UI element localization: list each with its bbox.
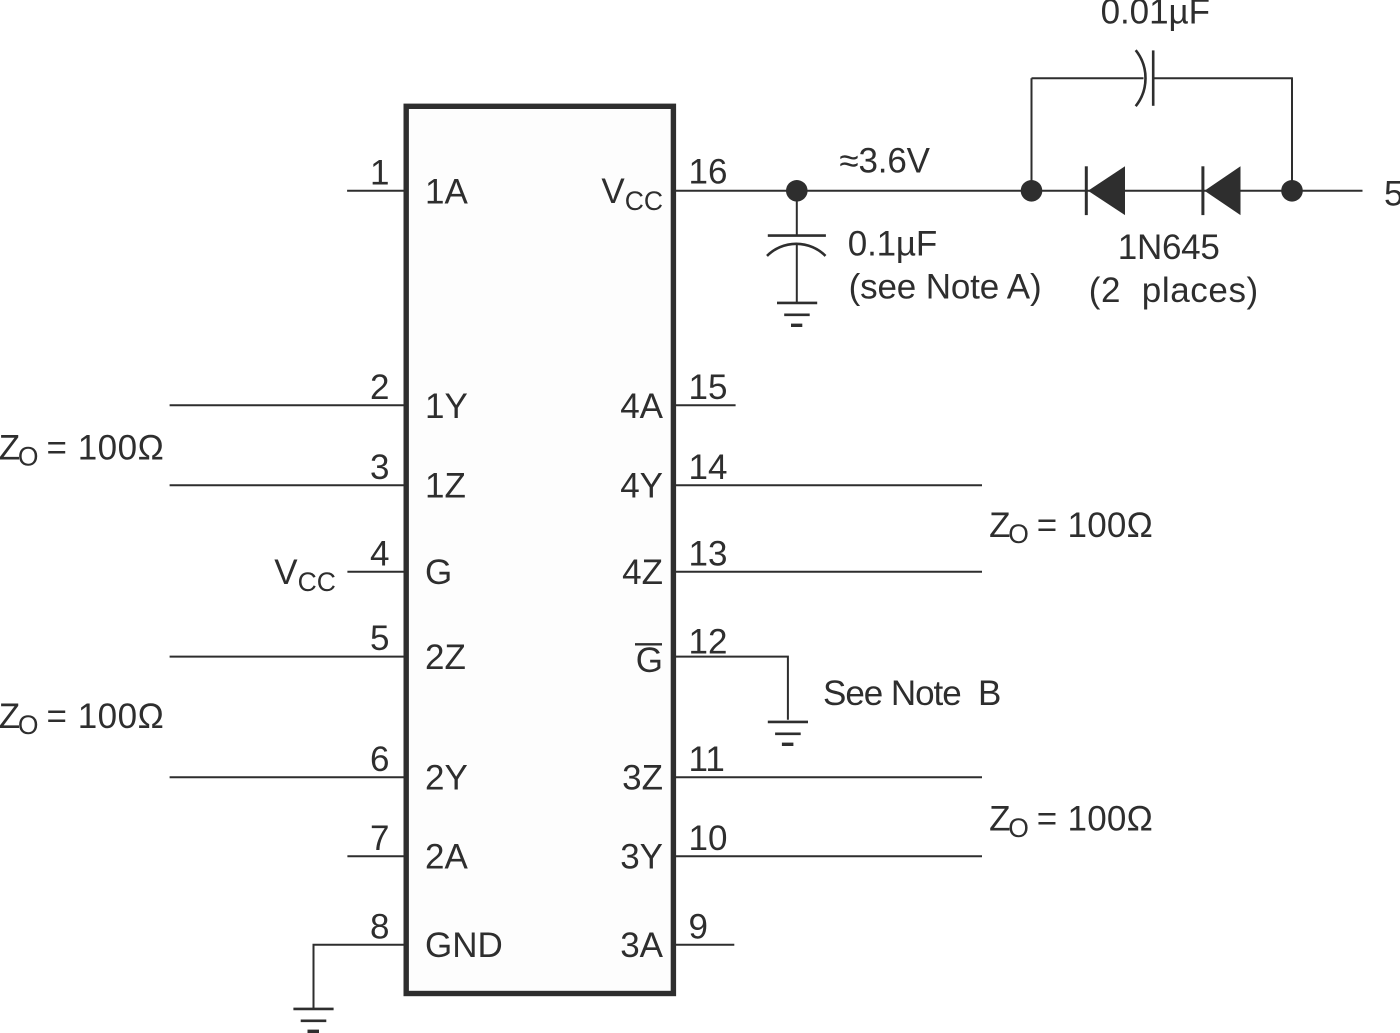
pin 16 wire (VCC net) [674, 190, 1363, 192]
pin 9 wire [674, 944, 734, 946]
svg-text:4Y: 4Y [620, 467, 663, 506]
svg-text:= 100Ω: = 100Ω [1037, 800, 1153, 839]
junction dot A [786, 180, 808, 202]
junction dot B [1021, 180, 1043, 202]
net ZO right 2 label [989, 800, 1153, 843]
svg-text:O: O [18, 710, 39, 740]
svg-text:12: 12 [689, 622, 728, 661]
svg-text:15: 15 [689, 368, 728, 407]
svg-text:G: G [425, 553, 452, 592]
pin 12 label overline [635, 643, 662, 645]
net ZO left 2 label [0, 697, 164, 740]
pin 7 wire [347, 855, 406, 857]
pin 11 wire [674, 776, 982, 778]
svg-text:= 100Ω: = 100Ω [1037, 506, 1153, 545]
pin 14 wire [674, 484, 982, 486]
IC U1 body [406, 106, 673, 993]
svg-text:1N645: 1N645 [1118, 228, 1220, 267]
svg-text:7: 7 [370, 819, 389, 858]
svg-text:14: 14 [689, 448, 728, 487]
pin 4 wire [347, 571, 406, 573]
capacitor C1 0.1uF [767, 191, 826, 303]
svg-text:1: 1 [370, 153, 389, 192]
svg-text:4A: 4A [620, 387, 663, 426]
net ZO right 1 label [989, 506, 1153, 549]
net ZO left 1 label [0, 428, 164, 471]
svg-text:See Note B: See Note B [823, 674, 1001, 713]
svg-text:1Z: 1Z [425, 467, 466, 506]
capacitor C2 plates [1136, 50, 1154, 106]
ground at pin 8 [293, 1009, 333, 1031]
ground at pin 12 [768, 722, 808, 744]
pin 1 wire [347, 190, 406, 192]
svg-text:Z: Z [989, 800, 1010, 839]
svg-text:1A: 1A [425, 172, 468, 211]
svg-text:3A: 3A [620, 926, 663, 965]
pin 10 wire [674, 855, 982, 857]
svg-text:O: O [18, 442, 39, 472]
svg-text:4Z: 4Z [622, 553, 663, 592]
svg-text:2Y: 2Y [425, 759, 468, 798]
svg-text:O: O [1008, 519, 1029, 549]
svg-text:O: O [1008, 813, 1029, 843]
diode D1 1N645 [1086, 166, 1125, 215]
pin 3 wire [170, 484, 406, 486]
ground at C1 [777, 303, 817, 325]
svg-text:GND: GND [425, 926, 503, 965]
svg-text:1Y: 1Y [425, 387, 468, 426]
svg-text:13: 13 [689, 534, 728, 573]
svg-text:4: 4 [370, 534, 389, 573]
svg-text:16: 16 [689, 152, 728, 191]
svg-text:2A: 2A [425, 838, 468, 877]
pin 15 wire [674, 404, 736, 406]
svg-text:6: 6 [370, 740, 389, 779]
svg-text:3: 3 [370, 448, 389, 487]
capacitor C2 0.01uF top branch wires [1032, 78, 1293, 191]
svg-text:(see Note A): (see Note A) [849, 268, 1042, 307]
svg-text:11: 11 [689, 740, 725, 779]
pin 2 wire [170, 404, 406, 406]
svg-text:5: 5 [370, 619, 389, 658]
svg-text:2: 2 [370, 368, 389, 407]
svg-text:≈3.6V: ≈3.6V [839, 141, 930, 180]
svg-text:0.1µF: 0.1µF [848, 224, 938, 263]
svg-text:= 100Ω: = 100Ω [47, 697, 164, 736]
pin 12 wire [674, 657, 788, 720]
svg-text:10: 10 [689, 819, 728, 858]
svg-text:3Z: 3Z [622, 759, 663, 798]
svg-text:G: G [636, 641, 663, 680]
svg-text:Z: Z [989, 506, 1010, 545]
pin 13 wire [674, 571, 982, 573]
svg-text:= 100Ω: = 100Ω [47, 428, 164, 467]
pin 5 wire [170, 656, 406, 658]
svg-text:5 V: 5 V [1384, 175, 1400, 214]
pin 8 wire [314, 945, 407, 1009]
svg-text:8: 8 [370, 907, 389, 946]
diode D2 1N645 [1203, 166, 1241, 215]
svg-text:9: 9 [689, 907, 708, 946]
svg-text:3Y: 3Y [620, 838, 663, 877]
junction dot C [1281, 180, 1303, 202]
svg-text:2Z: 2Z [425, 638, 466, 677]
pin 6 wire [170, 776, 406, 778]
svg-text:(2 places): (2 places) [1089, 271, 1258, 310]
svg-text:0.01µF: 0.01µF [1101, 0, 1210, 32]
